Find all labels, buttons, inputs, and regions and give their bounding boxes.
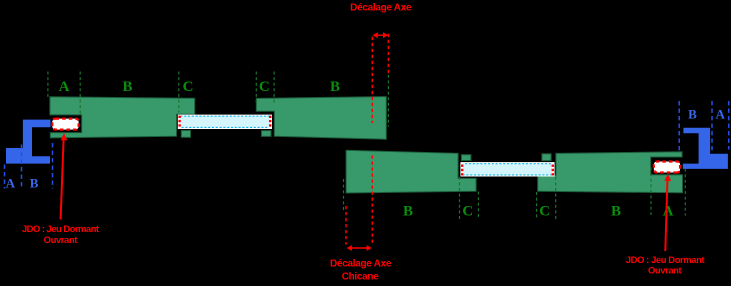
svg-text:A: A <box>663 204 674 220</box>
svg-text:Décalage Axe: Décalage Axe <box>350 3 412 14</box>
svg-text:B: B <box>330 79 340 95</box>
svg-text:B: B <box>30 175 39 190</box>
svg-text:A: A <box>6 175 16 190</box>
svg-text:Décalage Axe: Décalage Axe <box>330 259 392 270</box>
svg-text:Chicane: Chicane <box>342 272 380 283</box>
svg-text:B: B <box>403 204 413 220</box>
svg-text:B: B <box>611 204 621 220</box>
svg-text:C: C <box>183 79 194 95</box>
svg-text:C: C <box>462 204 473 220</box>
svg-text:A: A <box>59 79 70 95</box>
svg-text:JDO : Jeu Dormant: JDO : Jeu Dormant <box>626 255 706 266</box>
svg-text:B: B <box>688 107 697 122</box>
svg-text:B: B <box>122 79 132 95</box>
svg-text:Ouvrant: Ouvrant <box>648 266 683 277</box>
svg-text:A: A <box>716 107 726 122</box>
svg-text:Ouvrant: Ouvrant <box>44 235 79 246</box>
svg-text:JDO : Jeu Dormant: JDO : Jeu Dormant <box>22 224 100 235</box>
svg-text:C: C <box>259 79 270 95</box>
svg-text:C: C <box>539 204 550 220</box>
